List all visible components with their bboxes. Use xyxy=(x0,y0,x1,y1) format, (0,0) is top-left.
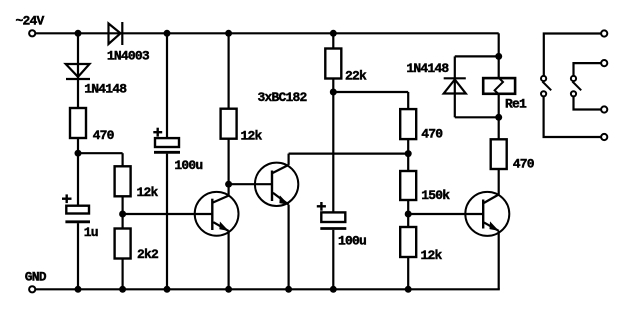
svg-text:22k: 22k xyxy=(345,69,367,84)
svg-text:12k: 12k xyxy=(241,129,263,144)
svg-text:1N4003: 1N4003 xyxy=(107,48,150,63)
svg-text:~24V: ~24V xyxy=(16,14,45,29)
svg-text:12k: 12k xyxy=(421,248,443,263)
svg-text:470: 470 xyxy=(513,157,535,172)
svg-text:470: 470 xyxy=(93,128,115,143)
svg-text:1N4148: 1N4148 xyxy=(84,82,127,97)
svg-text:12k: 12k xyxy=(137,185,159,200)
svg-text:100u: 100u xyxy=(338,234,366,249)
svg-text:470: 470 xyxy=(421,127,443,142)
svg-text:150k: 150k xyxy=(421,188,450,203)
svg-text:1N4148: 1N4148 xyxy=(406,61,449,76)
svg-text:100u: 100u xyxy=(174,158,202,173)
svg-text:Re1: Re1 xyxy=(505,97,527,112)
svg-text:GND: GND xyxy=(25,270,47,285)
svg-text:3xBC182: 3xBC182 xyxy=(258,90,308,105)
svg-text:1u: 1u xyxy=(84,225,98,240)
svg-text:2k2: 2k2 xyxy=(137,247,159,262)
